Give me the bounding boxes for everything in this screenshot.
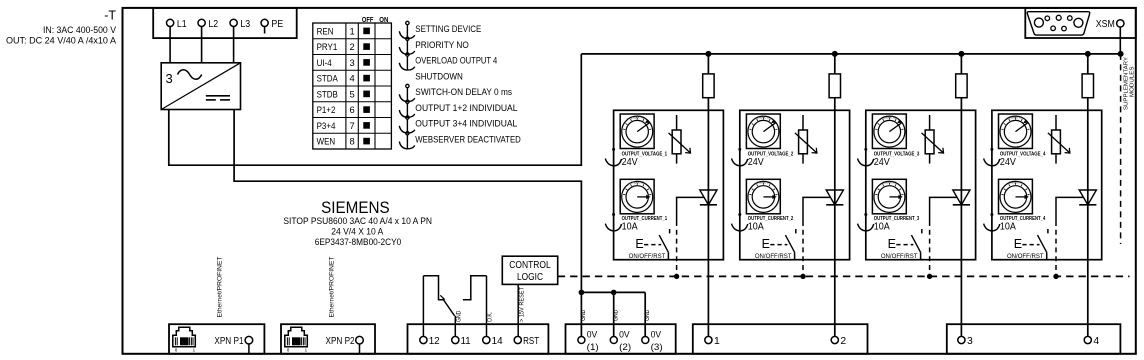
terminal 4 [1084,336,1091,343]
svg-text:1.MAX.70: 1.MAX.70 [883,115,897,119]
svg-text:REN: REN [317,25,334,36]
node junction bus fuse 2 [832,51,838,57]
svg-text:GND: GND [614,309,620,321]
terminal box outputs 3 4 [947,324,1121,354]
svg-text:GND: GND [645,309,651,321]
svg-text:1: 1 [349,25,354,36]
svg-text:ON: ON [379,15,388,24]
terminal XPN P2 [356,336,364,344]
wire dashed E to switch 3 [896,244,913,246]
input terminal box L1 L2 L3 PE [153,8,297,38]
svg-text:4: 4 [1093,336,1099,347]
wire to variable resistor 1 [676,115,678,130]
RJ45 jack icon P1 [173,327,196,347]
svg-text:STDA: STDA [317,73,339,84]
D-sub connector XSM [1025,8,1136,38]
potentiometer OUTPUT_VOLTAGE_4 dial [999,114,1033,149]
DIP switch 3 OFF position mark [363,59,370,66]
svg-text:10A: 10A [748,221,764,233]
svg-text:PE: PE [271,19,283,30]
svg-text:1.MAX.70: 1.MAX.70 [1009,181,1023,185]
svg-text:Ethernet/PROFINET: Ethernet/PROFINET [217,256,224,317]
wire dashed supplementary modules [1120,54,1122,244]
svg-text:L1: L1 [177,19,187,30]
terminal L3 [230,19,237,26]
svg-text:3: 3 [166,71,173,86]
wire terminal 12 to contact [422,276,424,337]
ethernet port XPN P1 box [169,324,264,354]
terminal RST [514,336,521,343]
svg-text:IN: 3AC 400-500 V: IN: 3AC 400-500 V [43,25,117,36]
connector hook 10A channel 1 [612,213,615,216]
switch ON/OFF/RST S4 [1038,235,1047,252]
wire control logic to RST terminal [517,284,519,336]
svg-text:10A: 10A [1000,221,1016,233]
svg-text:(1): (1) [587,342,599,352]
fuse F4 [1082,74,1093,98]
svg-text:WEBSERVER DEACTIVATED: WEBSERVER DEACTIVATED [415,134,521,144]
DIP switch 1 OFF position mark [363,28,370,35]
switch ON/OFF/RST S1 [659,235,668,252]
svg-text:STDB: STDB [317,88,338,99]
wire fuse F3 to output block [960,98,962,111]
wire to variable resistor 4 [1055,115,1057,130]
svg-text:P1+2: P1+2 [317,104,336,115]
terminal box 0V [566,324,676,354]
thyristor Q4 [1079,190,1096,205]
wire 0V(1) drop [580,292,582,336]
svg-text:RST: RST [523,336,539,347]
fuse F3 [956,74,967,98]
terminal 0V (3) [642,337,649,344]
svg-text:XPN P2: XPN P2 [326,336,355,347]
svg-text:PRIORITY NO: PRIORITY NO [415,40,469,50]
connector hook symbol row 2 [406,37,409,40]
wire gate Q3 [930,197,957,221]
svg-text:6: 6 [349,104,354,115]
terminal L2 [198,19,205,26]
wire bus to fuse F2 [834,54,836,74]
terminal 0V (1) [578,337,585,344]
wire converter + output to top bus [169,54,582,165]
svg-text:0V: 0V [651,330,662,340]
terminal L1 [167,19,174,26]
svg-text:3: 3 [967,336,973,347]
svg-text:LOGIC: LOGIC [517,271,543,283]
output channel 2 block [740,110,850,259]
svg-text:1: 1 [714,336,720,347]
variable resistor R3 [925,130,934,154]
svg-text:1.MAX.70: 1.MAX.70 [631,115,645,119]
connector hook symbol row 3 [406,53,409,56]
wire bus to fuse F1 [707,54,709,74]
variable resistor R1 [672,130,681,154]
svg-text:1: 1 [305,348,308,353]
svg-text:ON/OFF/RST: ON/OFF/RST [881,253,918,260]
fuse F1 [703,74,714,98]
output channel 3 block [866,110,976,259]
wire dashed E control bus [558,275,1130,277]
svg-text:GND: GND [456,310,462,322]
wire dashed gate 1 to E bus [676,221,678,276]
DIP switch 4 OFF position mark [363,75,370,82]
wire fuse F1 to output block [707,98,709,111]
wire gate Q1 [677,197,704,221]
svg-text:-T: -T [104,9,116,23]
svg-text:OUT: DC 24 V/40 A /4x10 A: OUT: DC 24 V/40 A /4x10 A [6,36,117,47]
thyristor Q3 [953,190,970,205]
wire 0V(3) drop [644,292,646,336]
connector hook symbol row 7 [406,116,409,119]
wire output 1 vertical [707,110,709,336]
svg-text:ON/OFF/RST: ON/OFF/RST [629,253,666,260]
potentiometer OUTPUT_CURRENT_1 dial [620,179,654,214]
svg-text:E: E [635,237,643,251]
wire top 24V bus [581,53,1120,55]
svg-text:8: 8 [287,348,290,353]
wire fuse F2 to output block [834,98,836,111]
wire gate Q4 [1056,197,1083,221]
wire output 2 vertical [834,110,836,336]
svg-text:0V: 0V [587,330,598,340]
connector hook symbol row 5 [406,84,409,87]
svg-text:SWITCH-ON DELAY 0 ms: SWITCH-ON DELAY 0 ms [415,87,512,97]
DIP switch 5 OFF position mark [363,91,370,98]
wire L3 to converter [233,27,235,63]
svg-text:6EP3437-8MB00-2CY0: 6EP3437-8MB00-2CY0 [315,236,402,247]
thyristor Q1 [700,190,717,205]
DIP switch 6 OFF position mark [363,106,370,113]
relay contact arm [443,299,455,316]
svg-text:12: 12 [429,336,440,347]
potentiometer OUTPUT_VOLTAGE_3 dial [872,114,906,149]
connector hook 10A channel 2 [738,213,741,216]
wire dashed E to switch 4 [1022,244,1039,246]
wire bus to fuse F3 [960,54,962,74]
svg-text:CONTROL: CONTROL [509,259,551,271]
wire XSM to bus [1119,27,1121,54]
svg-text:(3): (3) [651,342,663,352]
svg-text:O.K.: O.K. [487,312,493,322]
DIP switch 8 OFF position mark [363,138,370,145]
terminal box outputs 1 2 [693,324,868,354]
svg-text:UI-4: UI-4 [317,57,332,68]
potentiometer OUTPUT_VOLTAGE_2 dial [746,114,780,149]
connector hook 24V channel 1 [612,148,615,151]
terminal 11 [452,336,459,343]
variable resistor R2 [799,130,808,154]
potentiometer OUTPUT_CURRENT_3 dial [872,179,906,214]
output channel 4 block [992,110,1102,259]
svg-text:GND: GND [581,309,587,321]
svg-text:24V: 24V [1000,156,1016,168]
switch ON/OFF/RST S2 [785,235,794,252]
svg-text:> 15V RESET: > 15V RESET [519,287,526,322]
svg-text:24 V/4 X 10 A: 24 V/4 X 10 A [331,225,384,236]
wire output 4 vertical [1087,110,1089,336]
node junction E bus 4 [1053,274,1058,279]
svg-text:2: 2 [349,41,354,52]
svg-text:XSM: XSM [1096,19,1115,30]
relay terminal box [408,324,549,354]
wire XPN P1 stub [248,344,250,354]
wire L2 to converter [201,27,203,63]
svg-text:24V: 24V [622,156,638,168]
svg-text:SITOP PSU8600 3AC 40 A/4 x 10: SITOP PSU8600 3AC 40 A/4 x 10 A PN [283,215,432,226]
wire dashed gate 2 to E bus [802,221,804,276]
terminal 2 [831,336,838,343]
relay contact NO side [463,276,487,300]
wire dashed gate 3 to E bus [929,221,931,276]
relay contact NC side [423,276,443,300]
AC/DC converter 3-phase rectifier [161,63,240,110]
terminal 12 [420,336,427,343]
wire XPN P2 stub [359,344,361,354]
wire dashed E to switch 2 [770,244,787,246]
potentiometer OUTPUT_VOLTAGE_1 dial [620,114,654,149]
svg-text:E: E [762,237,770,251]
potentiometer OUTPUT_CURRENT_4 dial [999,179,1033,214]
svg-text:1.MAX.70: 1.MAX.70 [757,181,771,185]
wire fuse F4 to output block [1087,98,1089,111]
terminal XPN P1 [245,336,253,344]
svg-text:L2: L2 [208,19,218,30]
svg-text:3: 3 [349,57,354,68]
svg-text:7: 7 [349,120,354,131]
connector hook symbol row 8 [406,132,409,135]
node junction bus fuse 1 [705,51,711,57]
svg-text:1.MAX.70: 1.MAX.70 [757,115,771,119]
svg-text:1.MAX.70: 1.MAX.70 [883,181,897,185]
svg-text:0V: 0V [619,330,630,340]
wire to variable resistor 3 [929,115,931,130]
terminal 1 [705,336,712,343]
svg-text:ON/OFF/RST: ON/OFF/RST [1007,253,1044,260]
node junction E bus 1 [674,274,679,279]
terminal PE [261,19,268,26]
svg-text:OUTPUT 1+2 INDIVIDUAL: OUTPUT 1+2 INDIVIDUAL [415,103,517,113]
connector hook symbol row 6 [406,100,409,103]
svg-text:OUTPUT 3+4 INDIVIDUAL: OUTPUT 3+4 INDIVIDUAL [415,119,517,129]
connector hook 10A channel 3 [864,213,867,216]
svg-text:PRY1: PRY1 [317,41,338,52]
wire converter 0V output rail [234,110,581,293]
svg-text:OVERLOAD OUTPUT 4: OVERLOAD OUTPUT 4 [415,56,497,66]
svg-text:SHUTDOWN: SHUTDOWN [415,71,463,81]
svg-text:4: 4 [349,73,354,84]
wire 0V rail horizontal [581,291,645,293]
connector hook 24V channel 4 [990,148,993,151]
node junction 0V-1 [579,290,585,296]
terminal 0V (2) [610,337,617,344]
svg-text:1.MAX.70: 1.MAX.70 [631,181,645,185]
control logic block U-CL [502,256,557,284]
svg-text:24V: 24V [748,156,764,168]
connector hook 24V channel 2 [738,148,741,151]
terminal 14 [483,336,490,343]
wire terminal 14 to contact [486,276,488,337]
svg-text:SETTING DEVICE: SETTING DEVICE [415,24,481,34]
switch ON/OFF/RST S3 [911,235,920,252]
svg-text:L3: L3 [240,19,250,30]
svg-text:XPN P1: XPN P1 [214,336,243,347]
svg-text:10A: 10A [622,221,638,233]
svg-text:8: 8 [349,136,354,147]
DIP switch 7 OFF position mark [363,122,370,129]
wire to variable resistor 2 [802,115,804,130]
svg-text:ON/OFF/RST: ON/OFF/RST [755,253,792,260]
svg-text:11: 11 [461,336,471,347]
wire output 3 vertical [960,110,962,336]
node junction E bus 3 [927,274,932,279]
svg-text:(2): (2) [619,342,631,352]
ethernet port XPN P2 box [281,324,375,354]
connector hook symbol row 1 [406,21,409,24]
svg-text:E: E [888,237,896,251]
node junction bus fuse 4 [1085,51,1091,57]
thyristor Q2 [826,190,843,205]
node junction bus fuse 3 [958,51,964,57]
variable resistor R4 [1052,130,1061,154]
svg-text:5: 5 [349,88,354,99]
svg-text:10A: 10A [874,221,890,233]
wire terminal 11 to contact [454,316,456,337]
svg-text:1: 1 [193,348,196,353]
node junction 0V-2 [611,290,617,296]
svg-text:24V: 24V [874,156,890,168]
RJ45 jack icon P2 [285,327,308,347]
potentiometer OUTPUT_CURRENT_2 dial [746,179,780,214]
wire PE stub [264,27,266,34]
terminal 3 [958,336,965,343]
svg-text:2: 2 [840,336,846,347]
wire dashed E to switch 1 [644,244,661,246]
wire bus to fuse F4 [1087,54,1089,74]
connector hook 10A channel 4 [990,213,993,216]
DIP switch 2 OFF position mark [363,43,370,50]
wire 0V(2) drop [613,292,615,336]
svg-text:1.MAX.70: 1.MAX.70 [1009,115,1023,119]
svg-text:E: E [1014,237,1022,251]
output channel 1 block [614,110,724,259]
node junction XSM bus [1118,51,1124,57]
connector hook 24V channel 3 [864,148,867,151]
wire L1 to converter [169,27,171,63]
svg-text:OFF: OFF [362,15,374,24]
svg-text:Ethernet/PROFINET: Ethernet/PROFINET [329,256,336,317]
fuse F2 [829,74,840,98]
terminal XSM [1117,20,1124,27]
svg-text:14: 14 [492,336,503,347]
node junction E bus 2 [800,274,805,279]
svg-text:P3+4: P3+4 [317,120,336,131]
wire dashed gate 4 to E bus [1055,221,1057,276]
svg-text:8: 8 [175,348,178,353]
svg-text:MODULES: MODULES [1129,66,1135,97]
svg-text:WEN: WEN [317,136,336,147]
DIP switch table grid [313,23,392,149]
wire gate Q2 [803,197,830,221]
